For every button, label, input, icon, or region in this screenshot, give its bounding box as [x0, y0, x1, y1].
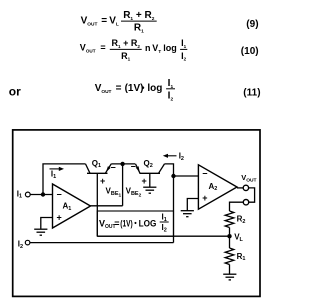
svg-text:VOUT: VOUT: [241, 173, 256, 183]
svg-text:VBE1: VBE1: [106, 187, 122, 199]
svg-text:VL: VL: [109, 16, 119, 28]
wire feedback vertical: [43, 164, 86, 195]
svg-text:•: •: [134, 220, 137, 227]
svg-text:I2: I2: [168, 90, 174, 102]
svg-text:(11): (11): [243, 88, 260, 99]
svg-text:(10): (10): [241, 46, 259, 57]
svg-text:I2: I2: [18, 240, 23, 250]
ground Q2 base: [143, 187, 156, 193]
node A2 inverting junction: [171, 174, 175, 178]
ground A2: [181, 211, 194, 217]
svg-text:R1 + R2: R1 + R2: [123, 10, 155, 22]
formula box text: [99, 212, 169, 233]
svg-text:A1: A1: [63, 202, 72, 212]
svg-text:R1: R1: [121, 51, 131, 62]
svg-text:R1: R1: [134, 23, 144, 35]
svg-text:Q2: Q2: [144, 159, 153, 169]
node emitter junction: [120, 162, 124, 166]
wire VL line from Q1 base to divider: [97, 235, 229, 237]
node Vout terminal circle top: [243, 185, 248, 190]
svg-text:R1: R1: [237, 252, 246, 262]
node I2 terminal: [18, 240, 30, 250]
resistor R2: [225, 211, 245, 228]
svg-text:VOUT: VOUT: [81, 16, 98, 28]
svg-text:−: −: [131, 161, 136, 171]
svg-text:R1 + R2: R1 + R2: [112, 38, 141, 49]
svg-text:+: +: [57, 213, 62, 223]
wire A2 output stub: [237, 187, 243, 189]
wire Q2 collector top and down right side: [165, 164, 174, 243]
wire A1 + input to ground: [41, 218, 53, 229]
node VL: [227, 234, 231, 238]
svg-text:LOG: LOG: [139, 218, 157, 228]
ground R1: [223, 274, 236, 280]
svg-text:=: =: [100, 43, 105, 53]
svg-text:−: −: [202, 169, 207, 179]
node I1 terminal: [17, 189, 30, 199]
ground A1: [34, 229, 47, 235]
svg-text:VOUT: VOUT: [95, 83, 112, 95]
svg-text:(1V): (1V): [120, 218, 132, 228]
svg-text:=: =: [116, 83, 122, 94]
svg-text:=: =: [114, 218, 119, 228]
wire A1 output: [91, 205, 123, 207]
svg-text:I2: I2: [181, 51, 187, 62]
wire I2 input to right vertical: [30, 242, 174, 244]
op-amp A2: [198, 165, 237, 209]
svg-text:I2: I2: [162, 223, 167, 234]
svg-text:n: n: [145, 43, 151, 53]
svg-text:A2: A2: [209, 182, 218, 192]
wire emitter junction down to A1 output: [122, 164, 124, 206]
wire junction to A2 inverting input: [174, 175, 199, 177]
current arrow I1: [50, 167, 65, 180]
svg-text:log: log: [147, 83, 162, 94]
svg-text:=: =: [101, 16, 107, 27]
svg-text:I1: I1: [162, 212, 167, 223]
current arrow I2: [163, 152, 184, 162]
node junction feedback tap: [41, 192, 45, 196]
wire Q2 base to ground: [149, 173, 151, 187]
equation 9: Vout = VL (R1+R2)/R1: [81, 10, 259, 35]
svg-text:I1: I1: [17, 189, 22, 199]
op-amp A1: [53, 184, 91, 228]
wire R1 to ground: [229, 265, 231, 274]
node terminal circle bottom: [243, 200, 248, 205]
svg-text:log: log: [163, 43, 177, 53]
wire circle to R2: [230, 202, 244, 211]
equation 10: Vout = (R1+R2)/R1 nVT log I1/I2: [80, 38, 259, 62]
svg-text:−: −: [57, 190, 62, 200]
svg-text:R2: R2: [237, 214, 246, 224]
svg-text:VL: VL: [234, 233, 243, 243]
wire I1 input to A1 inverting: [30, 194, 52, 196]
equation 11: or Vout = (1V) log I1/I2: [9, 78, 261, 102]
wire Q1 base down to VL line: [96, 173, 98, 236]
svg-text:+: +: [100, 176, 105, 186]
svg-text:(9): (9): [246, 19, 258, 30]
svg-text:VT: VT: [152, 43, 161, 54]
svg-text:•: •: [141, 82, 144, 92]
svg-text:I1: I1: [51, 170, 56, 180]
svg-text:+: +: [202, 193, 207, 203]
svg-text:Q1: Q1: [92, 159, 101, 169]
svg-text:VOUT: VOUT: [80, 43, 96, 54]
svg-text:+: +: [142, 176, 147, 186]
wire A2 + input to ground: [187, 199, 198, 211]
wire R2 to VL node: [229, 228, 231, 237]
formula box: [97, 211, 173, 236]
svg-text:VBE2: VBE2: [126, 187, 142, 199]
resistor R1: [225, 248, 245, 265]
svg-text:or: or: [9, 84, 21, 98]
transistor Q2: [136, 159, 165, 174]
svg-text:I2: I2: [179, 152, 184, 162]
wire Vout loop right: [249, 188, 255, 202]
wire VL to R1: [229, 236, 231, 248]
svg-text:VOUT: VOUT: [99, 218, 116, 230]
wire emitters Q1-Q2: [111, 163, 135, 165]
transistor Q1: [86, 159, 112, 174]
svg-text:I1: I1: [181, 38, 187, 49]
